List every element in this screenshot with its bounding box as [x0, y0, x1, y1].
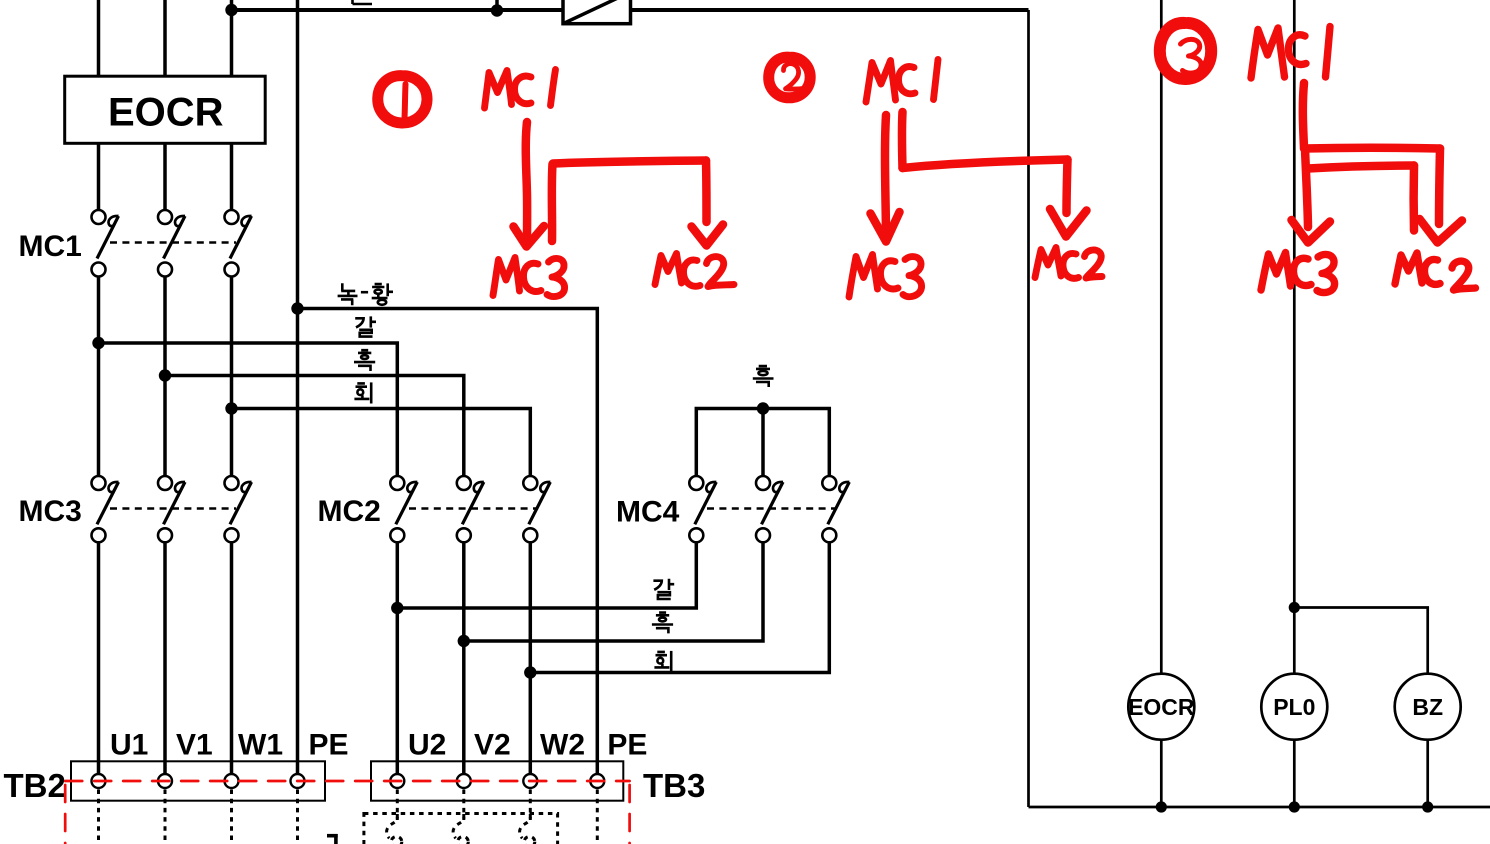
red branch group3 to MC3	[1305, 149, 1308, 228]
blade MC2 pole3	[529, 482, 551, 524]
node bus BZ	[1422, 801, 1433, 812]
node L3 top bus	[225, 4, 237, 16]
buzzer BZ	[1395, 674, 1461, 740]
node V2 join	[458, 635, 470, 647]
red circled 1	[378, 76, 427, 123]
terminal TB2 V1	[158, 774, 172, 788]
svg-text:MC3: MC3	[19, 495, 82, 528]
label hoe (gray) hangul lower	[654, 651, 671, 672]
label hoe (gray) hangul	[354, 382, 371, 403]
svg-text:MC1: MC1	[19, 230, 82, 263]
contactor MC4 pole2 contacts	[756, 476, 770, 490]
link MC1 dashed	[110, 241, 236, 243]
wire dotted below U1	[97, 790, 100, 844]
red demarcation dashed right	[628, 785, 631, 844]
contactor MC3 pole2 contacts	[158, 476, 172, 490]
wire brown branch to MC2 pole1	[99, 343, 398, 483]
contactor MC2 pole2 contacts	[457, 476, 471, 490]
red demarcation dashed line horizontal	[65, 780, 629, 783]
wire MC2 pole1 to TB3	[396, 535, 400, 781]
red note MC3 group1	[493, 258, 520, 296]
wire MC3 pole3 to TB2	[230, 535, 234, 781]
svg-text:MC4: MC4	[616, 496, 680, 529]
wire MC2 pole2 to TB3	[462, 535, 466, 781]
red note MC2 group3	[1395, 253, 1422, 284]
contactor MC2 pole3 contacts	[523, 476, 537, 490]
red demarcation dashed left	[64, 785, 67, 844]
wire MC2 pole3 to TB3	[529, 535, 533, 781]
svg-text:EOCR: EOCR	[1128, 694, 1195, 720]
blade MC3 pole3	[230, 482, 252, 524]
label heuk (black) hangul lower	[652, 613, 673, 634]
terminal TB3 PE	[590, 774, 604, 788]
wire dotted below W2	[529, 790, 532, 821]
fuse F1	[563, 0, 631, 24]
wire dotted below V1	[164, 790, 167, 844]
wire MC4 pole2 output	[464, 535, 763, 641]
label nok (green) hangul	[338, 283, 358, 305]
wire MC4 input tie	[696, 409, 829, 484]
wire MC4 middle input stub	[761, 409, 765, 484]
contactor MC4 pole1 contacts	[689, 476, 703, 490]
blade MC3 pole2	[164, 482, 186, 524]
red arrow group3 to MC2	[1303, 83, 1304, 148]
terminal TB3 V2	[457, 774, 471, 788]
label heuk (black) hangul MC4	[753, 366, 774, 387]
coil EOCR	[1128, 674, 1194, 740]
wire L3 EOCR to MC1	[230, 144, 234, 218]
node MC4 tie black	[757, 402, 769, 414]
svg-text:BZ: BZ	[1412, 694, 1443, 720]
label hwang (yellow) hangul	[372, 283, 393, 304]
svg-text:W1: W1	[238, 728, 283, 761]
motor terminal dotted box	[364, 814, 558, 844]
link MC4 dashed	[707, 507, 837, 509]
red note MC2 group1	[655, 254, 682, 285]
dotted contact under W2	[520, 814, 531, 838]
link MC2 dashed	[409, 507, 536, 509]
terminal TB2 PE	[291, 774, 305, 788]
wire black branch to MC2 pole2	[165, 376, 464, 484]
wire PL0 to bus	[1293, 740, 1296, 808]
svg-text:PE: PE	[309, 728, 349, 761]
svg-text:MC2: MC2	[318, 495, 381, 528]
contactor MC2 pole1 contacts	[390, 476, 404, 490]
contactor MC4 pole3 contacts	[822, 476, 836, 490]
node PE green-yellow	[291, 302, 303, 314]
blade MC2 pole2	[462, 482, 484, 524]
label heuk (black) hangul	[354, 350, 375, 371]
red note MC3 group3	[1261, 253, 1291, 291]
svg-text:U2: U2	[408, 728, 446, 761]
dotted contact under V2	[453, 814, 464, 838]
red arrow group2 to MC3	[885, 115, 886, 232]
label gal (brown) hangul lower	[653, 579, 674, 599]
svg-text:W2: W2	[540, 728, 585, 761]
node W2 join	[524, 666, 536, 678]
terminal TB3 U2	[390, 774, 404, 788]
terminal TB3 W2	[523, 774, 537, 788]
contactor MC3 pole3 contacts	[225, 476, 239, 490]
wire EOCR coil to bus	[1160, 740, 1163, 808]
label gal (brown) hangul	[355, 316, 376, 336]
red branch group2 to MC2	[898, 112, 907, 168]
wire dotted below U2	[396, 790, 399, 821]
clipped mark bottom	[327, 834, 338, 844]
wire L1 top segment	[97, 0, 101, 77]
node black	[159, 369, 171, 381]
wire L2 EOCR to MC1	[163, 144, 167, 218]
wire L2 MC1 to MC3	[163, 270, 167, 484]
blade MC4 pole1	[695, 482, 717, 524]
node PL0 branch	[1289, 602, 1300, 613]
svg-text:V2: V2	[474, 728, 511, 761]
wire EOCR coil feed	[1160, 0, 1163, 674]
svg-text:TB3: TB3	[643, 767, 705, 804]
wire L1 MC1 to MC3	[97, 270, 101, 484]
contactor MC1 pole2 contacts	[158, 210, 172, 224]
svg-text:V1: V1	[176, 728, 213, 761]
wire MC4 pole1 output	[397, 535, 696, 608]
dotted contact circle under U2	[391, 837, 402, 844]
wire MC3 pole1 to TB2	[97, 535, 101, 781]
wire stub above node F	[495, 0, 499, 11]
node U2 join	[391, 602, 403, 614]
dotted contact under U2	[387, 814, 398, 838]
wire green-yellow branch	[298, 309, 598, 782]
blade MC4 pole3	[828, 482, 850, 524]
node bus EOCR	[1156, 801, 1167, 812]
red note MC1 group2	[866, 61, 896, 103]
dotted contact circle under V2	[458, 837, 469, 844]
blade MC1 pole1	[97, 216, 119, 259]
svg-text:PL0: PL0	[1273, 694, 1315, 720]
svg-text:U1: U1	[110, 728, 148, 761]
red circled 2	[769, 57, 811, 98]
red branch group1 to MC2	[548, 164, 557, 241]
blade MC1 pole2	[164, 216, 186, 259]
label hyphen	[361, 291, 368, 294]
terminal block TB3	[371, 761, 623, 800]
red note MC1 group1	[485, 71, 512, 109]
svg-text:EOCR: EOCR	[108, 91, 224, 135]
relay EOCR	[65, 76, 266, 143]
node bus PL0	[1289, 801, 1300, 812]
wire L3 top segment	[230, 0, 234, 77]
red circled 3	[1160, 23, 1211, 79]
contactor MC1 pole3 contacts	[225, 210, 239, 224]
link MC3 dashed	[110, 507, 236, 509]
wire BZ branch	[1294, 608, 1427, 675]
wire L1 EOCR to MC1	[97, 144, 101, 218]
wire MC4 pole3 output	[530, 535, 829, 672]
wire MC3 pole2 to TB2	[163, 535, 167, 781]
wire PL0 feed	[1293, 0, 1296, 674]
node brown	[92, 337, 104, 349]
terminal block TB2	[71, 761, 325, 800]
contactor MC3 pole1 contacts	[92, 476, 106, 490]
red arrow group1 to MC3	[526, 122, 527, 241]
blade MC1 pole3	[230, 216, 252, 259]
wire bottom bus	[1029, 806, 1490, 809]
wire dotted below V2	[462, 790, 465, 821]
wire top bus	[232, 8, 1029, 12]
red note MC1 group3	[1251, 28, 1285, 78]
terminal TB2 W1	[225, 774, 239, 788]
terminal TB2 U1	[92, 774, 106, 788]
blade MC2 pole1	[396, 482, 418, 524]
svg-text:TB2: TB2	[4, 767, 66, 804]
clipped hangul top edge	[353, 0, 373, 4]
node F fuse feed	[491, 4, 503, 16]
wire control left riser	[1027, 10, 1030, 807]
red note MC2 group2	[1035, 248, 1061, 278]
blade MC4 pole2	[762, 482, 784, 524]
svg-text:PE: PE	[607, 728, 647, 761]
lamp PL0	[1261, 674, 1327, 740]
wire L3 MC1 to MC3	[230, 270, 234, 484]
dotted contact circle under W2	[524, 837, 535, 844]
wire gray branch to MC2 pole3	[232, 409, 531, 484]
wire dotted below TB2 PE	[296, 790, 299, 844]
wire BZ to bus	[1426, 740, 1429, 808]
red note MC3 group2	[849, 255, 878, 298]
wire dotted below TB3 PE	[596, 790, 599, 844]
contactor MC1 pole1 contacts	[92, 210, 106, 224]
blade MC3 pole1	[97, 482, 119, 524]
node gray	[225, 402, 237, 414]
wire dotted below W1	[230, 790, 233, 844]
wire PE drop	[296, 0, 300, 781]
wire L2 top segment	[163, 0, 167, 77]
